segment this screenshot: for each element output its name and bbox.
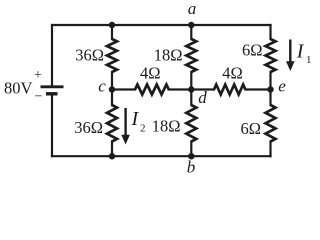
node e dot xyxy=(267,86,274,93)
wire node d to second 4ohm xyxy=(191,88,214,90)
wire col2 node a to 18ohm xyxy=(190,25,192,39)
label node c xyxy=(98,77,106,96)
label 6ohm lower xyxy=(240,119,261,138)
wire left lower (source to bottom rail) xyxy=(51,95,53,156)
label 36ohm upper xyxy=(75,46,104,65)
label 6ohm upper xyxy=(242,41,263,60)
svg-text:18Ω: 18Ω xyxy=(152,117,181,136)
label node d xyxy=(198,88,207,107)
wire node c to 4ohm xyxy=(112,88,135,90)
wire col2 lower 18ohm to bottom rail xyxy=(190,142,192,157)
label current I1 xyxy=(296,40,312,66)
svg-text:36Ω: 36Ω xyxy=(74,118,103,137)
wire second 4ohm to node e xyxy=(245,88,270,90)
svg-text:d: d xyxy=(198,88,207,107)
svg-text:6Ω: 6Ω xyxy=(242,41,263,60)
wire top rail a xyxy=(52,24,271,26)
label 4ohm right xyxy=(222,64,243,83)
svg-text:b: b xyxy=(187,158,196,177)
node d dot xyxy=(188,86,195,93)
label minus of source xyxy=(35,89,43,104)
svg-text:2: 2 xyxy=(140,123,146,135)
svg-text:−: − xyxy=(35,89,43,104)
svg-text:4Ω: 4Ω xyxy=(222,64,243,83)
resistor 18ohm lower-middle xyxy=(186,105,196,142)
wire bottom rail b xyxy=(52,155,271,157)
label node e xyxy=(278,77,286,96)
label 18ohm lower xyxy=(152,117,181,136)
wire col2 18ohm to node d to lower 18ohm xyxy=(190,72,192,105)
label 36ohm lower xyxy=(74,118,103,137)
svg-text:a: a xyxy=(188,0,197,18)
svg-text:+: + xyxy=(34,68,42,83)
wire 4ohm to node d xyxy=(169,88,192,90)
node dot bottom col1 xyxy=(109,153,116,160)
label 4ohm left xyxy=(140,64,161,83)
resistor 36ohm lower-left xyxy=(107,105,117,142)
label node b xyxy=(187,158,196,177)
current arrow I2 xyxy=(121,108,130,145)
svg-text:18Ω: 18Ω xyxy=(154,46,183,65)
label 80V xyxy=(4,79,33,98)
resistor 18ohm upper-middle xyxy=(186,39,196,72)
resistor 4ohm right (d to e) xyxy=(214,85,245,95)
label plus of source xyxy=(34,68,42,83)
resistor 36ohm upper-left xyxy=(107,39,117,72)
current arrow I1 xyxy=(286,40,295,72)
svg-text:e: e xyxy=(278,77,286,96)
battery 80V source xyxy=(41,87,64,94)
svg-text:80V: 80V xyxy=(4,79,33,98)
wire right upper (top rail to 6ohm) xyxy=(269,25,271,39)
wire right lower 6ohm to bottom rail xyxy=(269,142,271,157)
svg-text:c: c xyxy=(98,77,106,96)
svg-text:I: I xyxy=(296,40,305,62)
resistor 4ohm left (c to d) xyxy=(135,85,169,95)
svg-text:4Ω: 4Ω xyxy=(140,64,161,83)
svg-text:6Ω: 6Ω xyxy=(240,119,261,138)
wire col1 top rail to 36ohm xyxy=(111,25,113,39)
node b dot xyxy=(188,153,195,160)
wire right 6ohm to node e xyxy=(269,72,271,105)
label 18ohm upper xyxy=(154,46,183,65)
svg-text:1: 1 xyxy=(306,54,311,66)
node a dot xyxy=(188,22,195,29)
svg-text:36Ω: 36Ω xyxy=(75,46,104,65)
wire col1 lower 36ohm to bottom rail xyxy=(111,142,113,157)
node dot top col1 xyxy=(109,22,116,29)
resistor 6ohm upper-right xyxy=(266,39,276,72)
svg-text:I: I xyxy=(131,108,140,130)
wire col1 36ohm to node c to lower 36ohm xyxy=(111,72,113,105)
resistor 6ohm lower-right xyxy=(266,105,276,142)
label current I2 xyxy=(131,108,146,135)
node c dot xyxy=(109,86,116,93)
label node a xyxy=(188,0,197,18)
wire left upper (source to top rail) xyxy=(51,25,53,86)
